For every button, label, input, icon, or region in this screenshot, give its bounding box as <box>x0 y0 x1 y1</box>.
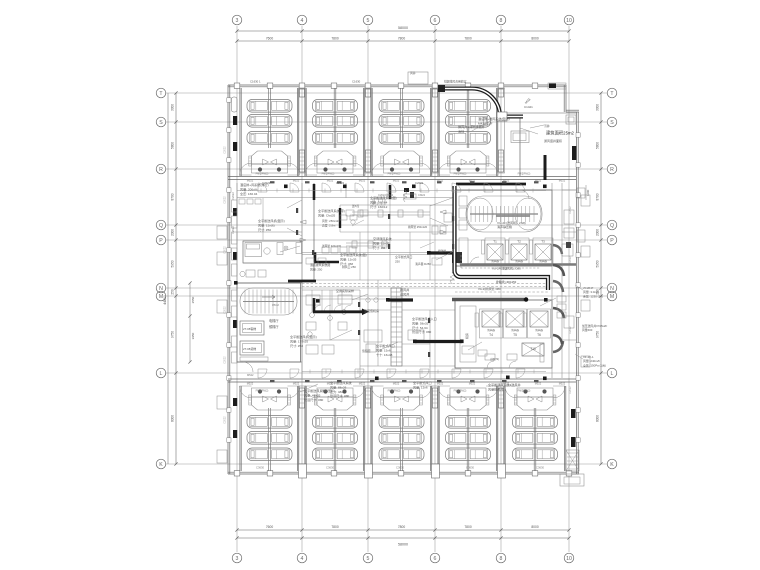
svg-text:M522: M522 <box>247 179 254 183</box>
svg-text:2000: 2000 <box>171 229 175 236</box>
svg-text:VG-2(排)风管, D80: VG-2(排)风管, D80 <box>478 287 501 291</box>
svg-text:T3: T3 <box>541 240 545 244</box>
svg-text:7800: 7800 <box>331 37 339 41</box>
svg-text:风量: 13x35: 风量: 13x35 <box>340 256 357 261</box>
svg-text:7800: 7800 <box>331 525 339 529</box>
svg-text:5800: 5800 <box>596 142 600 149</box>
svg-text:消声器: 消声器 <box>511 328 519 332</box>
svg-text:L: L <box>160 371 163 377</box>
svg-text:消声器: 消声器 <box>515 259 523 263</box>
svg-text:250: 250 <box>171 289 175 295</box>
svg-text:FM甲FM(2): FM甲FM(2) <box>322 173 335 176</box>
svg-text:C3630: C3630 <box>256 466 264 470</box>
svg-text:FM甲FM(2): FM甲FM(2) <box>454 173 467 176</box>
svg-text:R: R <box>159 167 163 173</box>
svg-text:R: R <box>610 167 614 173</box>
svg-text:风井: 风井 <box>410 70 416 75</box>
svg-text:Q: Q <box>159 223 163 229</box>
svg-text:消声器: 消声器 <box>487 328 495 332</box>
svg-text:58000: 58000 <box>398 543 408 547</box>
svg-text:8000: 8000 <box>596 415 600 422</box>
svg-text:M522: M522 <box>559 179 566 183</box>
svg-text:M522: M522 <box>437 179 444 183</box>
svg-text:37m²: 37m² <box>272 303 279 307</box>
svg-text:2000: 2000 <box>596 229 600 236</box>
svg-text:P: P <box>159 238 163 244</box>
svg-text:7800: 7800 <box>464 525 472 529</box>
svg-text:监控值机房: 监控值机房 <box>364 308 379 313</box>
svg-text:M522: M522 <box>247 373 254 377</box>
svg-text:M522: M522 <box>503 179 510 183</box>
svg-text:酒店排+排风系统(图示): 酒店排+排风系统(图示) <box>478 116 510 121</box>
svg-text:M522: M522 <box>469 179 476 183</box>
svg-text:C2022: C2022 <box>569 256 572 264</box>
svg-text:排烟排风合用前室: 排烟排风合用前室 <box>444 80 467 84</box>
svg-text:2T-08客梯: 2T-08客梯 <box>243 326 256 331</box>
svg-text:FM甲FM(2): FM甲FM(2) <box>388 173 401 176</box>
svg-text:M522: M522 <box>535 382 542 386</box>
svg-text:Q: Q <box>610 223 614 229</box>
svg-text:7600: 7600 <box>266 525 274 529</box>
svg-text:T6: T6 <box>537 333 541 337</box>
svg-text:排风管 250x120: 排风管 250x120 <box>408 225 428 229</box>
svg-text:K: K <box>610 462 614 468</box>
svg-text:K: K <box>159 462 163 468</box>
svg-text:T2: T2 <box>517 240 521 244</box>
svg-text:FM甲FM(2): FM甲FM(2) <box>518 390 531 393</box>
svg-text:C2022: C2022 <box>224 306 227 314</box>
svg-text:全平衡送风机入口: 全平衡送风机入口 <box>412 316 437 321</box>
svg-text:4: 4 <box>301 18 304 24</box>
svg-text:风量: 13x(6): 风量: 13x(6) <box>258 222 275 227</box>
svg-text:风量: 58x35: 风量: 58x35 <box>412 320 429 325</box>
svg-text:送X局: 送X局 <box>352 204 359 208</box>
svg-text:M522: M522 <box>247 382 254 386</box>
svg-text:FM甲FM(2): FM甲FM(2) <box>256 390 269 393</box>
svg-text:2T-08货梯: 2T-08货梯 <box>243 346 256 351</box>
svg-text:风量: 206x%: 风量: 206x% <box>240 186 258 191</box>
svg-text:FM甲FM(2): FM甲FM(2) <box>518 173 531 176</box>
svg-text:6: 6 <box>434 18 437 24</box>
svg-text:尺寸: #50: 尺寸: #50 <box>258 227 271 232</box>
svg-text:C3630: C3630 <box>396 466 404 470</box>
svg-text:酒店排风系统图: 酒店排风系统图 <box>310 262 330 267</box>
svg-text:M522: M522 <box>293 382 300 386</box>
svg-text:M522: M522 <box>503 382 510 386</box>
svg-text:C2022: C2022 <box>224 416 227 424</box>
svg-text:3300: 3300 <box>171 104 175 111</box>
svg-text:7800: 7800 <box>464 37 472 41</box>
svg-text:5950: 5950 <box>596 260 600 267</box>
svg-text:VU-2F(排烟风机), D80: VU-2F(排烟风机), D80 <box>492 266 521 271</box>
svg-text:C2022: C2022 <box>415 181 424 185</box>
svg-text:送风管 320x200: 送风管 320x200 <box>322 244 342 248</box>
svg-text:44800: 44800 <box>163 295 167 305</box>
svg-text:全平衡式风口: 全平衡式风口 <box>413 380 432 385</box>
svg-text:10: 10 <box>566 556 572 562</box>
svg-text:管道尺寸: #80: 管道尺寸: #80 <box>304 397 324 402</box>
svg-text:排烟(排) 400x250: 排烟(排) 400x250 <box>496 280 517 284</box>
svg-text:M5区: M5区 <box>524 97 532 105</box>
svg-text:消声器: 消声器 <box>539 259 547 263</box>
svg-text:尺寸: #50: 尺寸: #50 <box>290 343 303 348</box>
svg-text:3: 3 <box>236 18 239 24</box>
svg-text:C2022: C2022 <box>231 226 235 234</box>
svg-text:8: 8 <box>500 18 503 24</box>
svg-text:C3630: C3630 <box>466 466 474 470</box>
svg-text:T: T <box>610 91 614 97</box>
svg-text:FM甲FM(2): FM甲FM(2) <box>454 390 467 393</box>
svg-text:5800: 5800 <box>171 142 175 149</box>
svg-text:白烟(72): 白烟(72) <box>490 357 499 361</box>
svg-text:空调实际采样: 空调实际采样 <box>336 288 354 293</box>
svg-text:风量: Cfa(35: 风量: Cfa(35 <box>318 212 335 217</box>
svg-text:8000: 8000 <box>531 37 539 41</box>
svg-text:10: 10 <box>566 18 572 24</box>
svg-text:C3630: C3630 <box>326 466 334 470</box>
svg-text:M522: M522 <box>393 179 400 183</box>
svg-text:全平衡通风系统(图): 全平衡通风系统(图) <box>370 195 397 200</box>
svg-text:排送排: 排送排 <box>438 249 446 253</box>
svg-text:7600: 7600 <box>266 37 274 41</box>
svg-text:候梯厅: 候梯厅 <box>269 324 279 329</box>
svg-text:十十: 16x48: 十十: 16x48 <box>376 352 393 357</box>
svg-text:FM甲FM(2): FM甲FM(2) <box>322 390 335 393</box>
svg-text:P: P <box>610 238 614 244</box>
svg-text:C2022: C2022 <box>569 386 572 394</box>
svg-text:C2022: C2022 <box>231 192 235 200</box>
svg-text:T: T <box>159 91 163 97</box>
svg-text:C2022: C2022 <box>224 246 227 254</box>
svg-text:全压: 166.04: 全压: 166.04 <box>240 191 258 196</box>
svg-text:风量: 15x6: 风量: 15x6 <box>376 347 391 352</box>
svg-text:全平衡送风系统(带): 全平衡送风系统(带) <box>318 208 345 213</box>
svg-text:S: S <box>159 120 163 126</box>
svg-text:M522: M522 <box>469 382 476 386</box>
svg-text:9750: 9750 <box>171 331 175 338</box>
svg-text:8700: 8700 <box>171 193 175 200</box>
svg-text:M522: M522 <box>327 179 334 183</box>
svg-text:7800: 7800 <box>398 37 406 41</box>
svg-text:风量600: 风量600 <box>582 328 593 332</box>
svg-text:CM22: CM22 <box>418 193 426 197</box>
svg-text:C2022: C2022 <box>336 181 345 185</box>
svg-text:管道尺寸: #80: 管道尺寸: #80 <box>330 393 350 398</box>
svg-text:风量: 13x6: 风量: 13x6 <box>413 384 428 389</box>
svg-text:机房: 机房 <box>464 333 469 339</box>
svg-text:7800: 7800 <box>398 525 406 529</box>
svg-text:风量排热风: 风量排热风 <box>488 386 503 391</box>
svg-text:空调通风系统: 空调通风系统 <box>373 236 392 241</box>
svg-text:通风竖井面积: 通风竖井面积 <box>544 138 562 143</box>
svg-text:S: S <box>610 120 614 126</box>
svg-text:L: L <box>611 371 614 377</box>
svg-text:C3630: C3630 <box>536 466 544 470</box>
svg-text:9750: 9750 <box>596 331 600 338</box>
svg-text:3950: 3950 <box>191 332 195 339</box>
svg-text:8700: 8700 <box>596 193 600 200</box>
svg-text:管道尺寸: #80: 管道尺寸: #80 <box>412 329 432 334</box>
svg-text:风管: 250x120: 风管: 250x120 <box>322 219 340 223</box>
svg-text:尺寸: 458: 尺寸: 458 <box>340 261 353 266</box>
svg-text:C1421: C1421 <box>524 105 533 109</box>
svg-text:C2022: C2022 <box>569 206 572 214</box>
svg-text:T5: T5 <box>513 333 517 337</box>
svg-text:5: 5 <box>367 556 370 562</box>
svg-text:全平衡送风机(图示): 全平衡送风机(图示) <box>258 218 285 223</box>
svg-text:消声器 D250: 消声器 D250 <box>415 262 431 266</box>
svg-text:M522: M522 <box>359 179 366 183</box>
svg-text:高度: 2.8m: 高度: 2.8m <box>322 224 336 228</box>
svg-text:风量: 13x35: 风量: 13x35 <box>373 240 390 245</box>
svg-text:全平衡送风机(图示): 全平衡送风机(图示) <box>290 334 317 339</box>
svg-text:全平衡送风系统(图): 全平衡送风系统(图) <box>340 252 367 257</box>
svg-text:全压: 150Pa (1台): 全压: 150Pa (1台) <box>583 362 606 367</box>
svg-text:全平衡式风口: 全平衡式风口 <box>395 254 412 259</box>
svg-text:T1: T1 <box>493 240 497 244</box>
svg-text:58000: 58000 <box>398 26 408 30</box>
svg-text:余压: 1230 (34): 余压: 1230 (34) <box>583 293 603 298</box>
svg-text:C2022: C2022 <box>569 326 572 334</box>
svg-text:建筑面积25m2: 建筑面积25m2 <box>546 130 575 137</box>
svg-text:M522: M522 <box>535 179 542 183</box>
svg-text:C2022: C2022 <box>224 146 227 154</box>
svg-text:3300: 3300 <box>596 104 600 111</box>
svg-text:消声器: 消声器 <box>535 328 543 332</box>
svg-text:C1630: C1630 <box>352 80 361 84</box>
svg-text:尺寸: 160/12: 尺寸: 160/12 <box>370 204 388 209</box>
svg-text:VU-2F(送风机), 2N8): VU-2F(送风机), 2N8) <box>497 220 526 225</box>
svg-text:M522: M522 <box>393 382 400 386</box>
svg-text:8000: 8000 <box>171 415 175 422</box>
svg-text:污井: 污井 <box>544 123 550 128</box>
svg-text:T4: T4 <box>489 333 493 337</box>
svg-text:送风井: 送风井 <box>400 291 409 296</box>
svg-text:C2022: C2022 <box>262 181 271 185</box>
svg-text:M522: M522 <box>327 382 334 386</box>
svg-text:FM甲FM(2): FM甲FM(2) <box>388 390 401 393</box>
svg-text:8: 8 <box>500 556 503 562</box>
svg-text:C2022: C2022 <box>224 356 227 364</box>
svg-text:消声器: 消声器 <box>491 259 499 263</box>
svg-text:M522: M522 <box>293 179 300 183</box>
svg-text:全平衡式风口: 全平衡式风口 <box>376 343 395 348</box>
svg-text:风量: 250: 风量: 250 <box>310 266 323 271</box>
svg-text:M522: M522 <box>559 382 566 386</box>
svg-text:M522: M522 <box>359 382 366 386</box>
svg-text:M: M <box>610 294 614 300</box>
svg-text:治处: 治处 <box>458 128 464 133</box>
svg-text:风量: 48x35: 风量: 48x35 <box>304 392 321 397</box>
svg-text:风量: 170x35: 风量: 170x35 <box>290 338 308 343</box>
svg-text:尺寸: 54.64: 尺寸: 54.64 <box>412 325 428 330</box>
svg-text:5950: 5950 <box>171 260 175 267</box>
svg-text:风量: 580/64: 风量: 580/64 <box>370 199 388 204</box>
svg-text:2550: 2550 <box>191 296 195 303</box>
svg-text:3: 3 <box>236 556 239 562</box>
svg-text:FM甲FM(2): FM甲FM(2) <box>256 173 269 176</box>
svg-text:M522: M522 <box>437 382 444 386</box>
svg-text:5: 5 <box>367 18 370 24</box>
svg-text:8000: 8000 <box>531 525 539 529</box>
svg-text:250: 250 <box>395 259 400 263</box>
svg-text:新风井: 新风井 <box>400 287 409 292</box>
svg-text:C2022: C2022 <box>224 196 227 204</box>
svg-text:6: 6 <box>434 556 437 562</box>
svg-text:4: 4 <box>301 556 304 562</box>
svg-text:尺寸: #M: 尺寸: #M <box>373 245 386 250</box>
svg-text:C1630 1: C1630 1 <box>250 80 261 84</box>
svg-text:T10: T10 <box>530 347 536 351</box>
svg-text:电梯厅: 电梯厅 <box>269 318 279 323</box>
